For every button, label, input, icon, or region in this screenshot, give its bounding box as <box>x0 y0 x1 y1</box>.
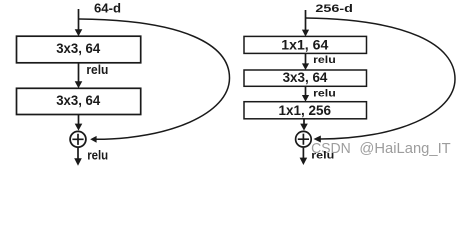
arrowhead into left box1 <box>75 29 83 36</box>
wire: right box1 to box2 <box>305 54 307 65</box>
svg-text:3x3, 64: 3x3, 64 <box>56 93 100 108</box>
svg-text:@HaiLang_IT: @HaiLang_IT <box>359 140 450 157</box>
arrowhead into right box3 <box>302 95 309 102</box>
svg-text:3x3, 64: 3x3, 64 <box>56 41 100 56</box>
skip connection curve (left) <box>79 19 230 139</box>
arrowhead of left skip into adder <box>90 136 96 143</box>
wire: right box2 to box3 <box>305 86 307 95</box>
arrowhead of right skip into adder <box>314 136 321 143</box>
wire: left box1 to box2 <box>78 63 80 82</box>
arrowhead right output <box>300 158 308 165</box>
svg-text:relu: relu <box>87 148 108 163</box>
wire: right adder to output <box>302 148 304 159</box>
svg-text:relu: relu <box>313 55 336 66</box>
svg-text:64-d: 64-d <box>94 2 121 16</box>
arrowhead into right box1 <box>302 30 309 37</box>
arrowhead into right adder <box>300 124 308 131</box>
box: right conv 1x1,256 <box>244 102 367 119</box>
svg-text:256-d: 256-d <box>315 3 353 15</box>
wire: right box3 to adder <box>303 119 305 124</box>
box: left conv 3x3,64 (second) <box>17 88 141 114</box>
arrowhead into left adder <box>75 124 83 131</box>
arrowhead into right box2 <box>302 63 309 70</box>
wire: left input line <box>78 9 80 30</box>
box: left conv 3x3,64 (first) <box>17 36 141 63</box>
svg-text:3x3, 64: 3x3, 64 <box>283 70 328 85</box>
svg-text:relu: relu <box>311 149 334 161</box>
svg-text:relu: relu <box>86 63 108 77</box>
wire: right input line <box>305 10 307 30</box>
skip connection curve (right) <box>306 18 456 139</box>
svg-text:1x1, 256: 1x1, 256 <box>279 103 332 118</box>
box: right conv 3x3,64 <box>244 70 367 86</box>
svg-text:relu: relu <box>313 89 336 100</box>
arrowhead left output <box>74 158 82 166</box>
wire: left adder to output <box>77 148 79 159</box>
svg-text:1x1, 64: 1x1, 64 <box>281 37 329 52</box>
adder circle (right) <box>296 131 312 147</box>
wire: left box2 to adder <box>78 115 80 125</box>
adder circle (left) <box>70 131 86 147</box>
arrowhead into left box2 <box>75 81 83 88</box>
box: right conv 1x1,64 <box>244 36 367 53</box>
